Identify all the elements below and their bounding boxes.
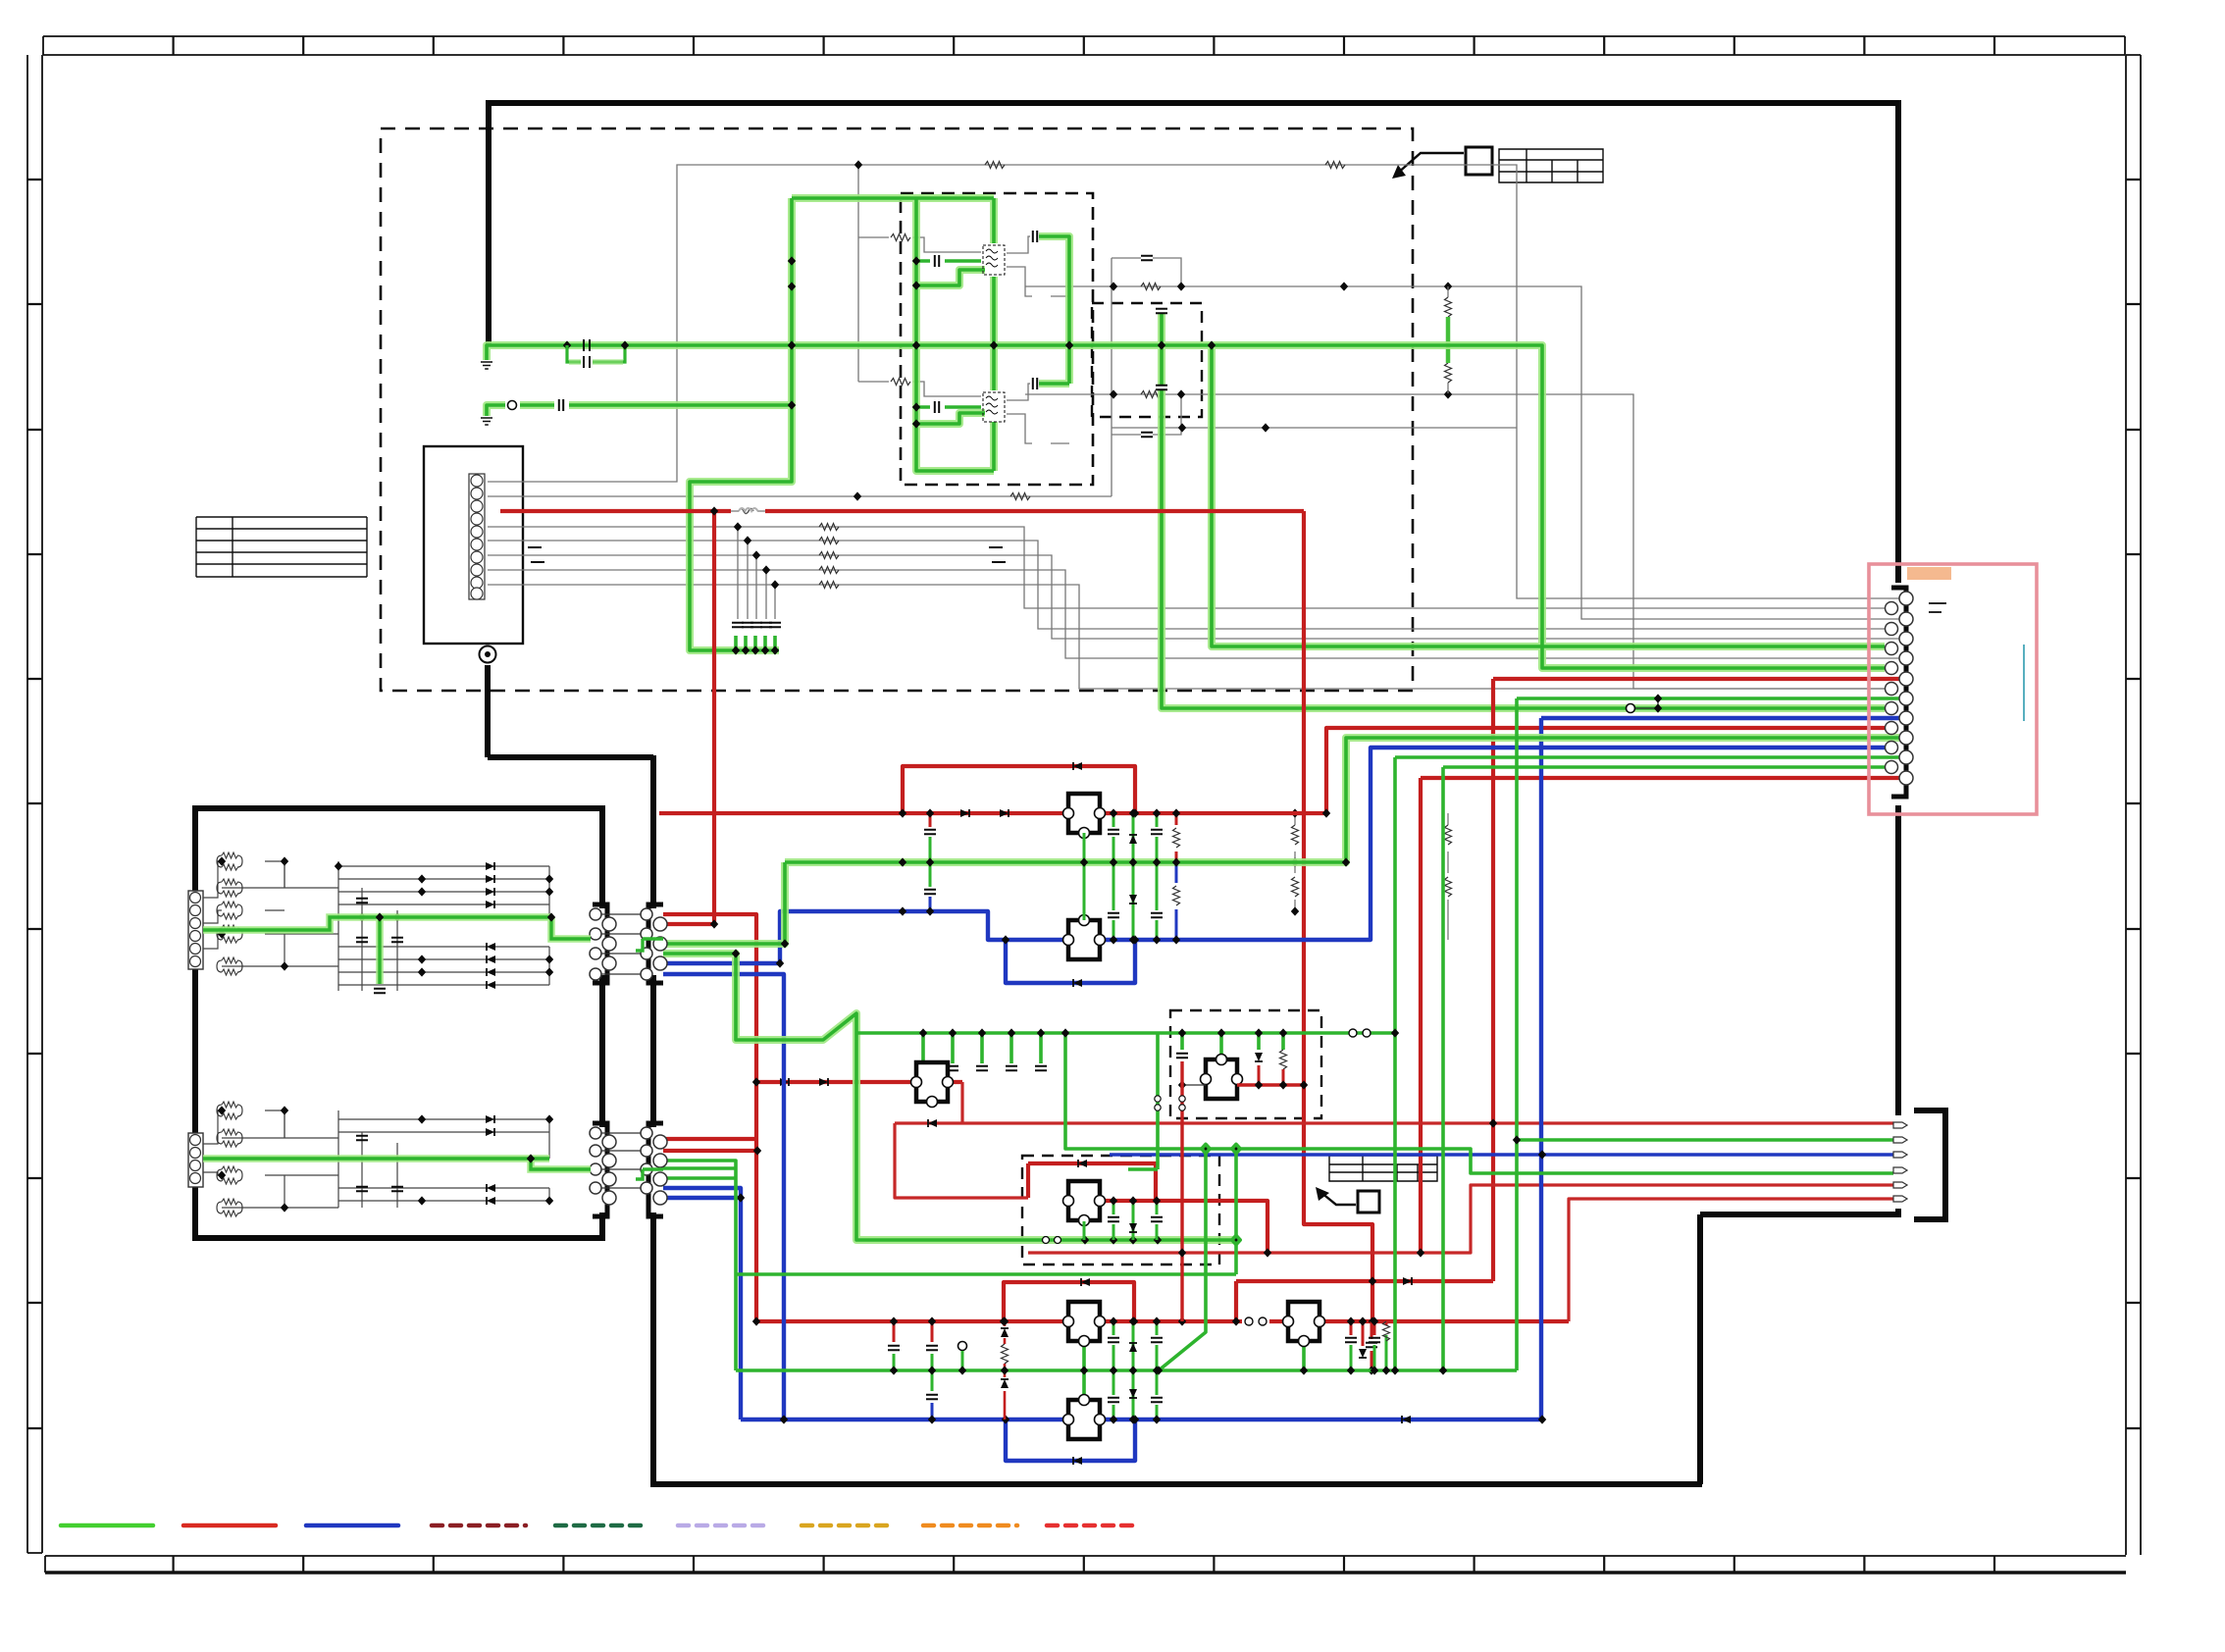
bracket: [1914, 1110, 1945, 1219]
wire green preout path: [663, 954, 1236, 1240]
diodes fan: [486, 1115, 494, 1123]
choke inductor: [739, 509, 753, 514]
wire green speaker row2: [1517, 1138, 1893, 1142]
wire mid row: [1112, 427, 1517, 429]
legend blue solid: [306, 1523, 398, 1528]
wire drain lower: [1007, 384, 1050, 400]
caps preamp taps: [917, 1066, 929, 1070]
wire green FET1 loop: [792, 198, 994, 345]
junction: [1322, 808, 1330, 817]
junction: [737, 1193, 745, 1202]
bypass capacitor pair: [584, 339, 590, 368]
transistor Q3: [1063, 794, 1106, 839]
wire green preamp row taps: [923, 1033, 1041, 1063]
wire: [1294, 813, 1296, 911]
junction: [899, 906, 906, 915]
red drop 1205: [1180, 1061, 1183, 1321]
resistor: [985, 162, 1005, 169]
capacitor: [391, 1187, 403, 1191]
wire red bus2 loop: [1004, 1282, 1134, 1321]
resistor: [1292, 877, 1299, 897]
wire red to display pin: [1326, 728, 1885, 813]
junction: [1202, 1144, 1210, 1153]
green stub R1: [1083, 833, 1086, 862]
NC pair on preout row: [1043, 1237, 1050, 1244]
pin circles right: [641, 908, 667, 980]
wire green R8 top stub: [1219, 1033, 1223, 1059]
ground: [481, 362, 492, 369]
junction: [1264, 1248, 1271, 1257]
wiring thin: [203, 861, 549, 991]
cap stub column2: [1156, 813, 1159, 940]
wire red connector B: [663, 922, 714, 926]
no-connect circle: [958, 1342, 967, 1351]
capacitor: [356, 899, 368, 903]
callout square: [1466, 147, 1492, 175]
board outline right edge upper: [1895, 100, 1901, 583]
wire green caps row verticals: [736, 636, 775, 650]
junction: [1065, 340, 1073, 349]
wire data row2: [488, 541, 1892, 629]
wire AM AGC row: [1025, 394, 1892, 689]
wire red speaker row1: [895, 1121, 1893, 1124]
junction: [1002, 1415, 1009, 1423]
wiring thin: [203, 1110, 549, 1208]
diode stub column: [1132, 813, 1135, 940]
wire data row1: [488, 527, 1892, 608]
junction: [753, 1146, 761, 1155]
junction: [899, 808, 906, 817]
junctions on buses: [1110, 808, 1117, 817]
wire red speaker row6: [1569, 1199, 1893, 1321]
transistor Q2: [983, 392, 1005, 422]
junction: [1130, 1316, 1138, 1325]
junctions preamp taps: [919, 1028, 927, 1037]
resistor bridge column (x=1320) mid-zone: [1291, 808, 1299, 915]
pin circles left col: [1886, 602, 1898, 774]
bus bar: [2023, 645, 2025, 721]
wire blue pink drop: [1541, 718, 1899, 1420]
junction: [1177, 389, 1185, 398]
junction: [912, 281, 920, 289]
capacitor: [1033, 231, 1037, 242]
wire FM AGC row: [1025, 286, 1899, 619]
cap bridge column left B: [931, 1321, 934, 1342]
resistor: [1445, 825, 1452, 845]
board outline right edge mid: [1895, 805, 1901, 1115]
GREY SIGNAL WIRES: [488, 165, 1899, 689]
wire green diag riser: [1159, 1149, 1206, 1370]
SPEAKER CONNECTOR: [1893, 1110, 1945, 1219]
wire green to pin: [1212, 345, 1885, 646]
diode: [928, 1119, 937, 1127]
no-connect pair: [1349, 1029, 1357, 1037]
pin stubs: [601, 1133, 641, 1188]
junction: [1000, 1316, 1008, 1325]
green stub R2: [1083, 862, 1086, 920]
resistor: [1292, 825, 1299, 845]
input connector: [188, 891, 203, 969]
resistor pair: [217, 852, 242, 870]
resistor pair: [217, 1129, 242, 1147]
TITLE TABLE top-left: [196, 517, 367, 577]
board outline left lower + bus: [488, 665, 653, 908]
resistor pair: [217, 957, 242, 975]
junction: [912, 419, 920, 428]
wire red lower bracket rows: [663, 1139, 757, 1151]
wire choke row: [731, 510, 765, 512]
junction: [1291, 906, 1299, 915]
junction: [752, 1077, 760, 1086]
wire red speaker row5: [1028, 1185, 1893, 1253]
wire green FET2 out: [1039, 345, 1069, 384]
junction: [710, 506, 718, 515]
junction: [1110, 282, 1117, 290]
wire: [1447, 813, 1449, 940]
wire blue bracket rows: [663, 1188, 741, 1420]
junction: [1300, 1366, 1308, 1374]
wire green riser 1260: [1234, 1149, 1238, 1274]
junction: [780, 1415, 788, 1423]
junction: [776, 958, 784, 967]
capacitor: [1141, 433, 1153, 437]
junction: [788, 340, 796, 349]
transistor Q5: [911, 1062, 954, 1108]
wire data row4: [488, 570, 1899, 658]
FM front-end dashed box: [901, 193, 1093, 485]
legend orange dashed: [923, 1523, 1017, 1528]
wire blue speaker row3: [1110, 1153, 1893, 1156]
wire green jumper 2: [636, 1169, 663, 1179]
GREEN WIRES (lower section): [663, 738, 1899, 1240]
no-connect marks: [528, 547, 1006, 562]
wire green speaker row4: [1065, 1033, 1893, 1173]
R4 stub columns: [1084, 1201, 1157, 1240]
resistor stub column: [1175, 813, 1178, 862]
wire cap taps: [738, 527, 775, 619]
wire green preamp row: [856, 1031, 1395, 1035]
junction: [563, 340, 571, 349]
junction: [1439, 1366, 1447, 1374]
legend red dashed: [1047, 1523, 1140, 1528]
capacitor: [1033, 378, 1037, 389]
junction: [1208, 340, 1216, 349]
junction: [1002, 935, 1009, 944]
wire green main L-ch: [487, 345, 1885, 668]
junction: [1391, 1028, 1399, 1037]
arrow callout mid: [1320, 1192, 1356, 1205]
no-connect tap: [1627, 704, 1635, 713]
tuner block dashed box: [381, 129, 1413, 691]
wire red bus1 loop: [903, 766, 1135, 813]
wire red branch to B+: [712, 511, 716, 924]
resistor R row2: [891, 379, 910, 386]
wire green D5 stubs: [1182, 1033, 1283, 1050]
wire pin2 row: [488, 495, 1112, 497]
junctions preout row: [1081, 1235, 1089, 1244]
wire green cap branch to pin: [1162, 314, 1885, 708]
board outline top edge: [489, 100, 1898, 106]
CONNECTOR BRACKET PAIR upper: [590, 904, 667, 983]
junction: [788, 256, 796, 265]
junction: [1080, 857, 1088, 866]
connector box outline: [424, 446, 523, 644]
legend darkred dashed: [432, 1523, 526, 1528]
resistor: [1010, 493, 1030, 500]
capacitor: [559, 399, 563, 411]
input connector: [188, 1133, 203, 1187]
junction: [1262, 423, 1269, 432]
wire red bus2: [756, 1319, 1569, 1323]
resistor: [1141, 391, 1161, 398]
resistor R row1: [891, 234, 910, 241]
wire green FET1 source step: [916, 270, 985, 285]
wire source lower: [1007, 414, 1069, 443]
diode: [1073, 1457, 1082, 1465]
junction: [788, 282, 796, 290]
pin circles right col: [1899, 592, 1913, 785]
junction: [1155, 1366, 1163, 1374]
resistor pair: [217, 925, 242, 943]
wire blue R2 loop: [1006, 940, 1135, 983]
junctions caps row: [732, 645, 740, 654]
diodes fan: [486, 862, 494, 870]
cap bridge column left A: [893, 1321, 896, 1342]
junctions: [1110, 1316, 1117, 1325]
resistor pair: [217, 902, 242, 919]
box2 right edge segments: [599, 805, 605, 1241]
transistor Q1: [983, 245, 1005, 275]
junction: [1080, 1366, 1088, 1374]
junctions: [218, 1106, 226, 1114]
break circles: [1245, 1317, 1253, 1325]
revision table: [1499, 149, 1603, 182]
junction: [1369, 1276, 1376, 1285]
board outline right step: [653, 1209, 1901, 1484]
wire green drop to caps: [690, 345, 792, 650]
transistor Q4: [1063, 915, 1106, 960]
pink box outline: [1869, 564, 2037, 814]
diode: [1081, 1278, 1090, 1286]
BLUE WIRES: [663, 718, 1899, 1461]
capacitor: [1156, 386, 1167, 389]
junction: [1369, 1316, 1376, 1325]
DASHED BOXES: [381, 129, 1413, 1265]
capacitor: [391, 938, 403, 942]
diodes amp row: [780, 1078, 789, 1086]
wire green FET2 loop: [916, 345, 994, 471]
wire green bracket rows: [663, 1161, 736, 1370]
pin circles left: [590, 1127, 616, 1205]
STUB CLUSTERS mid-zone (between buses): [899, 808, 1350, 944]
junction: [710, 919, 718, 928]
no-connect circle: [508, 401, 517, 410]
table grid: [196, 517, 367, 577]
diode: [960, 809, 969, 817]
cap stub column2: [1156, 1321, 1159, 1420]
PINK HEAD UNIT BOX: [1869, 564, 2037, 814]
cap bridge column left: [929, 813, 932, 827]
legend darkgreen dashed: [555, 1523, 648, 1528]
blue components: [737, 906, 1546, 1465]
BOX2 INTERNALS lower channel: [188, 1102, 553, 1216]
junction: [1444, 389, 1452, 398]
wire green cap stubs: [916, 261, 981, 407]
diode: [1403, 1277, 1412, 1285]
wire red R4 loop: [1028, 1163, 1156, 1201]
junction: [1538, 1415, 1546, 1423]
capacitor: [356, 1187, 368, 1191]
transistor Q8: [1063, 1395, 1106, 1440]
PINK CONNECTOR: [1886, 588, 1914, 797]
wire green 1180 drop: [1128, 1033, 1158, 1169]
transistor Q7: [1063, 1302, 1106, 1347]
box2 top/left/bottom: [195, 805, 602, 1241]
junction: [1417, 1248, 1424, 1257]
capacitor: [356, 1136, 368, 1140]
resistor rows data: [819, 524, 839, 531]
junction: [1232, 1316, 1240, 1325]
terminals: [1893, 1122, 1907, 1128]
connector pin strip: [469, 474, 485, 599]
wire red power main: [500, 509, 1304, 513]
BOX2 INTERNALS upper channel: [188, 852, 553, 991]
green path box2 lower: [203, 1154, 663, 1179]
resistor: [1325, 162, 1345, 169]
resistor bridge column right (x=1476): [1445, 286, 1452, 393]
junction: [1061, 1028, 1069, 1037]
junction: [990, 340, 998, 349]
wire green FET2 source step: [916, 413, 985, 424]
legend gold dashed: [802, 1523, 895, 1528]
junction: [732, 949, 740, 957]
resistor pair: [217, 1166, 242, 1184]
main bus segment lower: [650, 1213, 656, 1487]
junction: [854, 160, 862, 169]
legend green solid: [61, 1523, 153, 1528]
wire green FET1 out: [1039, 236, 1069, 345]
inductor: [739, 508, 758, 511]
relay dashed box bottom: [1022, 1156, 1219, 1265]
ground: [481, 418, 492, 425]
wire mid column: [1111, 258, 1112, 496]
diode: [1073, 762, 1082, 770]
green path box2 upper: [203, 912, 663, 993]
junction: [912, 402, 920, 411]
resistor: [1445, 363, 1452, 383]
wire data row3: [488, 555, 1899, 639]
wire data row5: [488, 585, 1892, 689]
resistor pair: [217, 1102, 242, 1119]
R7 right stubs: [1351, 1321, 1374, 1346]
board edge marks: [1929, 603, 1946, 612]
wire red trunk 793: [1421, 778, 1899, 1253]
LEGEND: [61, 1523, 1140, 1528]
wire red R3 riser: [960, 1082, 963, 1123]
junction: [621, 340, 629, 349]
bracket right: [648, 904, 663, 983]
wire pin1 to control bus: [488, 165, 1899, 598]
diode: [1073, 979, 1082, 987]
resistor pair: [217, 879, 242, 897]
cap stub column: [1112, 1321, 1115, 1420]
diode stub column: [1132, 1321, 1135, 1420]
wire red pink drop: [1493, 679, 1899, 1281]
junction: [781, 939, 789, 948]
pin circles right: [641, 1127, 667, 1205]
resistor bridge column (x=1476) mid-zone: [1445, 813, 1452, 940]
capacitor: [1141, 256, 1153, 260]
wire blue R6 loop: [1006, 1420, 1135, 1461]
junction: [1131, 935, 1139, 944]
wire green R5 stub: [1082, 1346, 1086, 1370]
junction: [1513, 1135, 1521, 1144]
cap stub column: [1112, 813, 1115, 940]
junction: [752, 1316, 760, 1325]
bracket left: [593, 1123, 607, 1216]
wire red connector A down: [663, 914, 756, 1321]
relay dashed box mid-right: [1170, 1010, 1321, 1118]
wire source upper: [1007, 267, 1069, 296]
capacitor: [935, 255, 939, 267]
pin stubs: [601, 914, 641, 974]
transistor Q9: [1283, 1302, 1325, 1347]
wire green bus mid: [663, 738, 1899, 944]
pin circles left: [590, 908, 616, 980]
resistor: [1445, 297, 1452, 317]
D5 stub components: [1176, 1054, 1188, 1058]
legend lavender dashed: [678, 1523, 771, 1528]
main bus segment: [650, 975, 656, 1127]
wire green row 1299: [736, 1272, 1236, 1276]
junction: [1444, 282, 1452, 290]
wire red main down: [1304, 511, 1372, 1321]
junction: [854, 491, 861, 500]
green stub lower: [1446, 345, 1451, 363]
junction: [1340, 282, 1348, 290]
CONNECTOR BRACKET PAIR lower: [590, 1123, 667, 1216]
red speaker rows: [895, 1082, 1893, 1321]
wire red drive row: [1236, 1281, 1493, 1321]
bracket: [1891, 588, 1906, 797]
wire red bus1: [659, 811, 1326, 815]
board outline left edge upper: [486, 100, 492, 345]
wire green tuner out: [203, 917, 591, 939]
wire red amp row: [756, 1080, 962, 1084]
capacitor: [1156, 309, 1167, 313]
grey wire components: [528, 160, 1452, 627]
STUB CLUSTERS low-zone: [888, 1028, 1390, 1423]
resistor pair: [217, 1199, 242, 1216]
res/diode column: [1004, 1321, 1007, 1420]
wire red R3 to R4: [895, 1123, 1028, 1198]
break circles green drop: [1155, 1096, 1161, 1102]
diode: [1402, 1416, 1411, 1423]
green lower components: [732, 694, 1662, 1374]
wire green pink 712: [1517, 698, 1899, 1370]
wire drain upper: [1007, 236, 1050, 253]
R8 output row: [1237, 1083, 1304, 1086]
bracket right: [648, 1123, 663, 1216]
wire green bus3: [736, 1368, 1517, 1372]
diode: [1078, 1160, 1087, 1167]
junction: [376, 912, 384, 921]
RELAYS / DRIVER ICS: [911, 794, 1325, 1439]
wire blue bus mid: [663, 748, 1885, 963]
wire blue long down: [663, 974, 1542, 1420]
junction: [1291, 857, 1299, 866]
MAIN BOARD THICK OUTLINE: [488, 100, 1901, 1487]
